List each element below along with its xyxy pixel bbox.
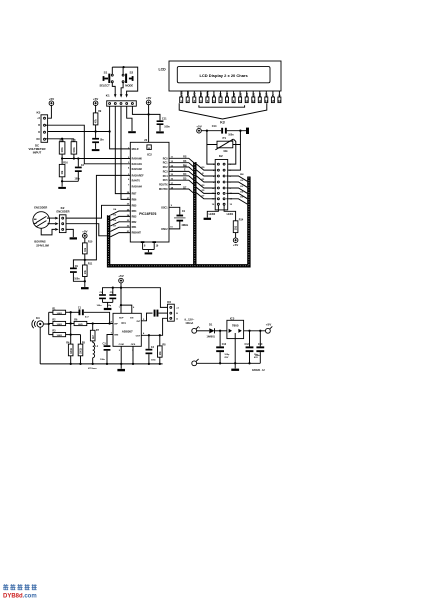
wire K5 pin2 to RA1 bbox=[46, 125, 131, 164]
svg-text:OSC2: OSC2 bbox=[161, 228, 168, 231]
resistor R10 bbox=[83, 238, 93, 265]
wire attenuator column bbox=[70, 312, 72, 334]
connector K2 (encoder, 3-pin) bbox=[57, 206, 70, 233]
svg-text:RS: RS bbox=[199, 93, 203, 97]
wire +5V node to EN pin bbox=[121, 305, 132, 313]
wires RB4-RB0 to bus bbox=[110, 211, 130, 215]
svg-text:+5V: +5V bbox=[196, 124, 201, 128]
svg-text:RC6/TX: RC6/TX bbox=[159, 184, 168, 187]
svg-text:D2: D2 bbox=[232, 93, 236, 97]
LED2 terminator bar bbox=[204, 218, 211, 220]
svg-text:100mA: 100mA bbox=[185, 322, 193, 325]
capacitor C1 4n7 bbox=[71, 306, 110, 323]
svg-text:4MHz: 4MHz bbox=[181, 223, 188, 227]
svg-text:RC3: RC3 bbox=[163, 170, 168, 173]
resistor R16 bbox=[59, 159, 68, 182]
wire P1 left to +5V node bbox=[207, 131, 217, 145]
svg-text:µ: µ bbox=[148, 146, 150, 150]
svg-text:IC2: IC2 bbox=[147, 153, 152, 157]
svg-text:E: E bbox=[212, 95, 216, 97]
ground bbox=[104, 308, 112, 310]
svg-text:D4: D4 bbox=[245, 93, 249, 97]
wire +5V to IC1 SUP bbox=[120, 283, 122, 313]
svg-text:SELECT: SELECT bbox=[99, 84, 110, 88]
wire encoder K2 pin2 to bus bbox=[66, 224, 107, 236]
svg-text:100n: 100n bbox=[255, 355, 261, 357]
wire +5V to VDD node bbox=[148, 105, 150, 115]
svg-text:RB1: RB1 bbox=[132, 226, 137, 229]
svg-text:C12: C12 bbox=[245, 343, 250, 346]
wire K1 pin3 to RB6 bbox=[121, 106, 130, 199]
wire to D1 bbox=[197, 330, 210, 332]
svg-text:IC1: IC1 bbox=[122, 321, 127, 325]
resistor R1 bbox=[49, 307, 71, 315]
resistor R9 47k bbox=[93, 110, 102, 125]
svg-text:K4: K4 bbox=[36, 316, 40, 320]
svg-text:RC5: RC5 bbox=[163, 179, 168, 182]
ground bbox=[70, 237, 77, 239]
wire ground rail (supply) bbox=[197, 362, 261, 364]
svg-text:D5: D5 bbox=[251, 93, 255, 97]
wire K1 pin4 to ground bbox=[127, 106, 132, 131]
resistor R6 bbox=[74, 319, 113, 327]
svg-text:RB3: RB3 bbox=[132, 215, 137, 218]
svg-text:DYB8d.com: DYB8d.com bbox=[3, 594, 37, 600]
connector K5 (DC voltmeter input) bbox=[28, 111, 47, 155]
input terminal + bbox=[192, 326, 201, 333]
svg-text:10k: 10k bbox=[223, 149, 228, 153]
ground bbox=[128, 131, 136, 133]
svg-text:C10: C10 bbox=[258, 343, 263, 346]
svg-text:RA4/T0: RA4/T0 bbox=[132, 180, 141, 183]
svg-text:+5V: +5V bbox=[118, 274, 123, 278]
resistor R17 bbox=[71, 139, 77, 159]
svg-text:R10: R10 bbox=[88, 241, 93, 244]
svg-text:RA1/AN1: RA1/AN1 bbox=[132, 163, 143, 166]
+5V output terminal bbox=[266, 323, 273, 334]
svg-text:OUT: OUT bbox=[136, 335, 141, 337]
svg-text:100n: 100n bbox=[228, 133, 234, 136]
wire encoder K2 pin3 to ground bbox=[66, 229, 73, 237]
resistor R4 bbox=[66, 335, 73, 364]
svg-text:RS: RS bbox=[183, 156, 187, 159]
wire divider node to RA1 bbox=[62, 158, 130, 160]
svg-text:K2: K2 bbox=[219, 154, 223, 158]
svg-text:B: B bbox=[38, 124, 40, 127]
wire K2 row8 right to LED1/R14 bbox=[224, 205, 236, 221]
svg-text:R14: R14 bbox=[239, 218, 244, 221]
svg-text:Ø7.5mm: Ø7.5mm bbox=[88, 368, 97, 370]
svg-text:MODE: MODE bbox=[125, 84, 133, 88]
node junction S2/rail bbox=[123, 66, 125, 68]
svg-text:10Ω: 10Ω bbox=[236, 226, 238, 231]
svg-text:100k: 100k bbox=[62, 147, 64, 153]
svg-text:DC: DC bbox=[37, 138, 41, 141]
svg-text:RC1: RC1 bbox=[163, 162, 168, 165]
svg-text:100Ω: 100Ω bbox=[56, 313, 62, 315]
resistor R11 bbox=[83, 263, 93, 287]
svg-text:D: D bbox=[38, 131, 40, 134]
svg-text:R/W: R/W bbox=[206, 91, 210, 97]
ground bbox=[156, 131, 164, 133]
capacitor C5 10u (decoupling) bbox=[108, 287, 117, 307]
encoder wires to K2 bbox=[47, 217, 55, 219]
wire +5V node down to K2 row1 bbox=[207, 145, 216, 165]
wire VDD node to IC2 pin 20 bbox=[148, 114, 150, 142]
svg-text:LCD: LCD bbox=[159, 68, 167, 72]
svg-text:MCLR: MCLR bbox=[132, 148, 139, 151]
+5V supply symbol (IC1) bbox=[118, 274, 123, 283]
wires IC2 RC pins to LCD bus bbox=[169, 158, 194, 162]
svg-text:K3: K3 bbox=[220, 120, 225, 124]
svg-text:C13: C13 bbox=[222, 343, 227, 346]
wire R9 to MCLR rail bbox=[95, 125, 97, 132]
svg-text:BOURNS: BOURNS bbox=[34, 239, 46, 243]
input terminal - bbox=[192, 359, 199, 366]
wire +5V to R9 bbox=[95, 106, 97, 113]
wire caps to ground bbox=[103, 301, 113, 303]
wire K2 row8 left to LED2 bbox=[207, 205, 218, 217]
+5V supply symbol (IC2 VDD) bbox=[146, 96, 151, 105]
watermark bbox=[3, 584, 37, 590]
svg-text:RS: RS bbox=[201, 167, 205, 169]
svg-text:RB4: RB4 bbox=[132, 210, 137, 213]
ground bbox=[120, 364, 122, 369]
capacitor C10 100n bbox=[255, 331, 264, 364]
svg-text:RC7/RX: RC7/RX bbox=[159, 188, 168, 191]
wire +5V to K5 pin1 bbox=[48, 106, 52, 119]
svg-text:VDD: VDD bbox=[186, 90, 190, 97]
svg-text:PIC16F876: PIC16F876 bbox=[139, 212, 156, 216]
svg-text:D3: D3 bbox=[238, 93, 242, 97]
wire ground node down to K2 row2 bbox=[226, 145, 240, 171]
wire +5V to C14/P1 bbox=[201, 130, 221, 132]
svg-text:1N4001: 1N4001 bbox=[207, 335, 216, 338]
resistor R7 bbox=[90, 324, 99, 341]
svg-text:100Ω: 100Ω bbox=[56, 324, 62, 326]
svg-text:D1: D1 bbox=[209, 323, 213, 327]
wire K1 pin1 to MCLR net bbox=[110, 106, 131, 149]
LCD display module bbox=[159, 61, 282, 91]
capacitor C8 bbox=[92, 132, 104, 149]
resistor R8 bbox=[158, 335, 167, 364]
svg-text:100n: 100n bbox=[97, 305, 103, 307]
svg-text:K1: K1 bbox=[106, 94, 110, 98]
svg-text:SUP: SUP bbox=[119, 317, 124, 319]
svg-text:020026 - 12: 020026 - 12 bbox=[252, 369, 265, 372]
svg-text:330Ω: 330Ω bbox=[81, 348, 83, 354]
diode D1 1N4001 bbox=[207, 323, 216, 339]
svg-text:INPUT: INPUT bbox=[33, 150, 42, 154]
svg-text:INP: INP bbox=[114, 324, 118, 326]
svg-text:EN: EN bbox=[130, 317, 133, 319]
capacitor C2 100n bbox=[75, 157, 85, 181]
svg-text:RB0/INT: RB0/INT bbox=[132, 232, 142, 235]
svg-text:100n: 100n bbox=[151, 359, 157, 361]
wire IC1 COM/OFS to ground rail bbox=[121, 346, 134, 365]
connector K3 (LCD cable bracket) bbox=[179, 103, 267, 124]
svg-text:330Ω: 330Ω bbox=[71, 348, 73, 354]
svg-text:RA2/AN2: RA2/AN2 bbox=[132, 168, 143, 171]
connector K1 (5-pin) bbox=[106, 94, 137, 107]
svg-text:RA5/AN4: RA5/AN4 bbox=[132, 185, 143, 188]
resistor R15 bbox=[59, 139, 65, 159]
resistor R5 bbox=[78, 335, 85, 364]
LCD pin row (pins 1-16 with labels) bbox=[179, 90, 281, 103]
svg-text:COM: COM bbox=[119, 344, 124, 346]
inductor L1 bbox=[88, 341, 99, 370]
wire IC3 output to +5V bbox=[244, 330, 266, 332]
svg-text:25V: 25V bbox=[224, 357, 228, 359]
wire MCLR rail bbox=[46, 131, 110, 133]
pushbutton S2 MODE bbox=[121, 67, 133, 95]
svg-text:+5V: +5V bbox=[82, 229, 87, 233]
svg-text:K2: K2 bbox=[61, 206, 65, 210]
voltage regulator IC3 7805 bbox=[227, 317, 244, 339]
wire D1 to IC3 bbox=[215, 330, 227, 332]
svg-text:+5V: +5V bbox=[146, 96, 151, 100]
wires bus to K2 left pins bbox=[196, 164, 216, 170]
svg-text:RA3/AREF: RA3/AREF bbox=[132, 174, 144, 177]
wire K4 to attenuator bbox=[43, 323, 48, 325]
svg-text:RB2: RB2 bbox=[132, 221, 137, 224]
ground bbox=[81, 287, 89, 289]
wire IC2 VSS pins 8 and 19 to ground bbox=[141, 241, 159, 252]
wire P1 wiper to K2 pin bbox=[226, 140, 235, 165]
wire reference node to RA3/AREF bbox=[85, 175, 131, 260]
capacitor C7 bbox=[154, 310, 156, 317]
svg-text:VSS: VSS bbox=[179, 91, 183, 97]
svg-text:9...12V~: 9...12V~ bbox=[185, 317, 195, 321]
crystal X1 4MHz bbox=[174, 209, 189, 227]
wire IC1 OUT to K6 pin3 bbox=[141, 318, 168, 335]
arrows into K1 bbox=[114, 94, 117, 97]
wires K2 right pins to right bus bbox=[226, 176, 247, 181]
svg-text:S1: S1 bbox=[104, 70, 108, 74]
wire encoder K2 pin1 to RB5 bbox=[66, 205, 130, 218]
resistor R14 bbox=[233, 218, 244, 238]
ground bbox=[145, 252, 153, 254]
svg-text:LCD Display 2 x 20 Chars: LCD Display 2 x 20 Chars bbox=[199, 73, 248, 78]
svg-text:D0: D0 bbox=[219, 93, 223, 97]
svg-text:S2: S2 bbox=[130, 70, 134, 74]
svg-text:D1: D1 bbox=[225, 93, 229, 97]
bus: RB bus down-left, bottom run, and right bus up bbox=[109, 177, 249, 266]
svg-text:ENCODER: ENCODER bbox=[34, 206, 47, 210]
+5V supply symbol (backlight) bbox=[233, 238, 238, 247]
svg-text:+5V: +5V bbox=[266, 323, 271, 327]
wire OSC1 to crystal bbox=[169, 207, 180, 214]
svg-text:100Ω: 100Ω bbox=[56, 335, 62, 337]
capacitor C11 100n bbox=[149, 114, 171, 131]
svg-text:68Ω: 68Ω bbox=[78, 324, 82, 326]
svg-text:C11: C11 bbox=[162, 117, 167, 121]
svg-text:X1: X1 bbox=[182, 209, 186, 213]
op-amp/microcontroller IC2 PIC16F876 bbox=[127, 142, 169, 242]
svg-text:D7: D7 bbox=[265, 93, 269, 97]
wire +5V node to K6 pin1 bbox=[121, 288, 168, 308]
capacitor C3 100n (INM) bbox=[100, 335, 113, 364]
svg-text:LED2: LED2 bbox=[209, 212, 216, 216]
wire R3 node to R5 bbox=[71, 334, 81, 336]
wire P1 right to ground node bbox=[233, 131, 241, 145]
svg-text:OSC1: OSC1 bbox=[161, 206, 168, 209]
svg-text:OFS: OFS bbox=[131, 344, 136, 346]
svg-text:C14: C14 bbox=[212, 124, 217, 128]
svg-text:7805: 7805 bbox=[232, 324, 239, 328]
rotary encoder bbox=[33, 206, 50, 229]
capacitor C14 100n bbox=[212, 124, 234, 136]
svg-text:IC3: IC3 bbox=[230, 317, 235, 321]
wire IC1 INT to K6 pin2 via C7 bbox=[141, 313, 152, 321]
svg-text:K5: K5 bbox=[37, 111, 41, 115]
wire IC3 ground leg bbox=[234, 339, 236, 364]
svg-text:R11: R11 bbox=[88, 263, 93, 266]
svg-text:RC4: RC4 bbox=[163, 175, 168, 178]
svg-text:K6: K6 bbox=[167, 300, 171, 304]
capacitor C13 100u 25V bbox=[216, 331, 230, 364]
svg-text:+5V: +5V bbox=[49, 97, 54, 101]
svg-text:100n: 100n bbox=[74, 277, 80, 280]
resistor R2 bbox=[49, 319, 74, 327]
svg-text:100µ: 100µ bbox=[224, 354, 230, 356]
svg-text:RB5: RB5 bbox=[132, 204, 137, 207]
ground bbox=[61, 181, 63, 186]
wire OSC2 to crystal bbox=[169, 222, 180, 229]
pushbutton S1 SELECT bbox=[99, 67, 115, 95]
svg-text:RB6: RB6 bbox=[132, 198, 137, 201]
wire C14 to ground bbox=[227, 130, 246, 132]
svg-text:RC0: RC0 bbox=[163, 157, 168, 160]
wire K5 pin4 to divider top bbox=[46, 138, 74, 140]
svg-text:AD8307: AD8307 bbox=[122, 330, 133, 334]
svg-text:RC2: RC2 bbox=[163, 166, 168, 169]
capacitor C12 10u 63V bbox=[245, 331, 259, 364]
+5V supply symbol (LCD contrast) bbox=[196, 124, 201, 133]
svg-text:INM: INM bbox=[114, 335, 118, 337]
ground bbox=[234, 363, 236, 368]
connector K2 (16-pin LCD header) bbox=[212, 154, 233, 210]
bus: LCD signal bus (left vertical) bbox=[193, 162, 196, 266]
svg-text:224V/1.8M: 224V/1.8M bbox=[36, 243, 49, 247]
svg-text:LED1: LED1 bbox=[227, 212, 234, 216]
svg-text:RB7: RB7 bbox=[132, 193, 137, 196]
svg-text:P1: P1 bbox=[223, 136, 227, 140]
ground bbox=[92, 149, 100, 151]
svg-text:D6: D6 bbox=[258, 93, 262, 97]
ground (bar) bbox=[246, 128, 249, 134]
svg-text:10n: 10n bbox=[100, 138, 105, 141]
wire K1 pin2 to RB7 bbox=[115, 106, 130, 193]
svg-text:900k: 900k bbox=[74, 147, 76, 153]
svg-text:ENCODER: ENCODER bbox=[57, 209, 70, 213]
connector K6 (3-pin output) bbox=[167, 300, 179, 321]
+5V supply symbol (R9) bbox=[93, 97, 98, 106]
capacitor C4 100n (OUT) bbox=[146, 335, 157, 364]
resistor R3 bbox=[49, 330, 71, 338]
potentiometer P1 10k bbox=[215, 136, 234, 153]
wire K4 shield to rail bbox=[39, 327, 41, 364]
svg-text:100n: 100n bbox=[164, 126, 170, 129]
+5V supply symbol (R10) bbox=[82, 229, 87, 238]
capacitor C6 100n (decoupling) bbox=[97, 288, 122, 307]
wire K1 pin5 to +5V node bbox=[132, 106, 148, 114]
capacitor C9 bbox=[70, 260, 85, 281]
connector K4 (RF input) bbox=[32, 316, 43, 328]
svg-text:RA0/AN0: RA0/AN0 bbox=[132, 158, 143, 161]
wire divider bottom bbox=[62, 180, 78, 182]
svg-text:+5V: +5V bbox=[93, 97, 98, 101]
svg-text:+5V: +5V bbox=[233, 243, 238, 247]
svg-text:100n: 100n bbox=[100, 359, 106, 361]
wire top rail of S1/S2 bbox=[112, 67, 137, 95]
svg-text:100n: 100n bbox=[75, 178, 81, 181]
op-amp IC1 AD8307 bbox=[111, 307, 145, 352]
+5V supply symbol (K5) bbox=[49, 97, 54, 106]
wire ground rail (RF section) bbox=[40, 363, 162, 365]
